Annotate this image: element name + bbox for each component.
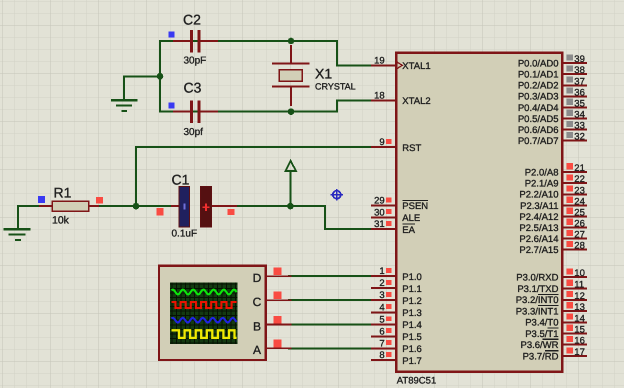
pin 39 (P0.0/AD0) right side	[518, 54, 586, 69]
svg-text:XTAL2: XTAL2	[402, 96, 430, 107]
pin 19 (XTAL1) left side	[372, 55, 430, 72]
svg-text:R1: R1	[54, 184, 72, 200]
pin 36 (P0.3/AD3) right side	[518, 87, 586, 102]
svg-text:24: 24	[574, 196, 585, 207]
scope pin D	[253, 271, 291, 285]
pin 29 (PSEN) left side	[372, 196, 428, 213]
indicator square C1 left pin (red)	[156, 208, 163, 215]
svg-text:25: 25	[574, 207, 585, 218]
svg-text:P0.1/AD1: P0.1/AD1	[518, 70, 559, 81]
power arrow (VCC)	[285, 161, 296, 171]
pin 27 (P2.6/A14) right side	[519, 230, 586, 245]
svg-text:33: 33	[574, 121, 585, 132]
pin 7 (P1.6) left side	[372, 338, 422, 355]
svg-text:P0.0/AD0: P0.0/AD0	[518, 59, 559, 70]
svg-text:P1.0: P1.0	[402, 272, 422, 283]
svg-text:P0.7/AD7: P0.7/AD7	[518, 136, 559, 147]
svg-text:15: 15	[574, 325, 585, 336]
capacitor C1	[172, 187, 236, 228]
pin 2 (P1.1) left side	[372, 278, 422, 295]
crystal X1	[272, 46, 310, 105]
resistor R1	[40, 201, 98, 211]
svg-text:P3.4/T0: P3.4/T0	[525, 318, 558, 329]
svg-text:PSEN: PSEN	[402, 201, 428, 212]
svg-text:EA: EA	[402, 225, 415, 236]
svg-text:RST: RST	[402, 143, 421, 154]
svg-text:P1.6: P1.6	[402, 344, 422, 355]
svg-text:A: A	[253, 343, 261, 357]
junction node XTAL2/C3/crystal-bottom	[288, 108, 295, 115]
indicator square C2 left pin (blue)	[168, 32, 174, 38]
pin 22 (P2.1/A9) right side	[525, 174, 586, 189]
pin 12 (P3.2/INT0) right side	[516, 291, 586, 306]
pin 13 (P3.3/INT1) right side	[516, 302, 586, 317]
wire ground branch from node at (160,76)	[124, 76, 160, 99]
wire power arrow stem	[289, 171, 291, 206]
svg-text:32: 32	[574, 132, 585, 143]
scope pin C	[253, 295, 291, 309]
svg-text:P2.0/A8: P2.0/A8	[525, 167, 559, 178]
pin 35 (P0.4/AD4) right side	[518, 98, 586, 113]
wire scope A to chip	[289, 347, 373, 349]
svg-text:P0.6/AD6: P0.6/AD6	[518, 125, 559, 136]
svg-text:P0.4/AD4: P0.4/AD4	[518, 103, 559, 114]
svg-text:B: B	[253, 319, 261, 333]
svg-text:6: 6	[379, 326, 384, 337]
svg-text:5: 5	[379, 315, 384, 326]
pin 15 (P3.5/T1) right side	[525, 325, 586, 340]
svg-text:P2.3/A11: P2.3/A11	[520, 201, 558, 212]
wire XTAL2 net: C3 right to chip pin 18	[160, 100, 373, 111]
capacitor C2	[174, 30, 217, 53]
pin 26 (P2.5/A13) right side	[519, 219, 586, 234]
svg-text:P1.1: P1.1	[402, 284, 422, 295]
svg-text:P0.2/AD2: P0.2/AD2	[518, 81, 559, 92]
svg-text:34: 34	[574, 110, 585, 121]
wire R1 right to C1 left	[97, 205, 173, 207]
pin 16 (P3.6/WR) right side	[520, 336, 586, 351]
svg-text:AT89C51: AT89C51	[397, 375, 436, 386]
wire scope D to chip	[289, 275, 373, 277]
wire vertical C2-C3 left bus at x=160	[159, 41, 161, 112]
wire scope B to chip	[289, 324, 373, 326]
pin 6 (P1.5) left side	[372, 326, 422, 343]
svg-text:P3.3/INT1: P3.3/INT1	[516, 306, 559, 317]
pin 37 (P0.2/AD2) right side	[518, 76, 586, 91]
svg-text:P2.1/A9: P2.1/A9	[525, 179, 559, 190]
pin 3 (P1.2) left side	[372, 290, 422, 307]
waveform green sine (channel D)	[172, 290, 237, 295]
pin 32 (P0.7/AD7) right side	[518, 132, 586, 147]
svg-text:P3.2/INT0: P3.2/INT0	[516, 295, 559, 306]
pin 9 (RST) left side	[372, 137, 421, 154]
svg-text:10: 10	[574, 268, 585, 279]
pin 33 (P0.6/AD6) right side	[518, 121, 586, 136]
indicator square scope D wire (red)	[274, 268, 282, 276]
pin 30 (ALE) left side	[372, 207, 420, 224]
pin 10 (P3.0/RXD) right side	[516, 268, 586, 283]
indicator square scope C wire (red)	[274, 292, 282, 300]
indicator square C3 left pin (blue)	[168, 103, 174, 109]
svg-text:30pF: 30pF	[184, 56, 207, 67]
svg-text:13: 13	[574, 302, 585, 313]
svg-text:P3.0/RXD: P3.0/RXD	[516, 273, 558, 284]
indicator square C1 right pin (red)	[227, 209, 234, 215]
svg-text:0.1uF: 0.1uF	[172, 228, 198, 239]
svg-text:23: 23	[574, 185, 585, 196]
svg-text:36: 36	[574, 87, 585, 98]
svg-text:12: 12	[574, 291, 585, 302]
svg-text:X1: X1	[315, 66, 332, 82]
origin marker (blue crosshair)	[331, 189, 344, 200]
svg-text:29: 29	[374, 196, 385, 207]
pin 5 (P1.4) left side	[372, 315, 422, 332]
waveform blue sine (channel B)	[172, 318, 237, 323]
scope pin A	[253, 343, 291, 357]
indicator square scope A wire (red)	[274, 340, 282, 348]
svg-text:P2.6/A14: P2.6/A14	[519, 234, 558, 245]
svg-text:P1.3: P1.3	[402, 308, 422, 319]
svg-text:26: 26	[574, 219, 585, 230]
pin 18 (XTAL2) left side	[372, 90, 430, 107]
svg-text:P0.5/AD5: P0.5/AD5	[518, 114, 559, 125]
svg-text:35: 35	[574, 98, 585, 109]
wire ground to R1 left	[18, 205, 41, 207]
svg-text:18: 18	[374, 90, 385, 101]
ground (upper, near C2/C3)	[112, 76, 136, 111]
svg-text:7: 7	[379, 338, 384, 349]
wire ground stem (left ground)	[17, 206, 19, 228]
wire C1 right to EA pin 31	[235, 206, 373, 229]
wire XTAL1 net: C2 right to chip pin 19	[160, 41, 373, 65]
junction node VCC/C1/EA	[287, 203, 294, 210]
ground (lower left, near R1)	[5, 229, 30, 240]
pin 38 (P0.1/AD1) right side	[518, 65, 586, 80]
svg-text:P1.5: P1.5	[402, 332, 422, 343]
waveform yellow square (channel A)	[172, 330, 237, 338]
svg-text:8: 8	[379, 350, 384, 361]
svg-text:30: 30	[374, 207, 385, 218]
svg-text:P1.4: P1.4	[402, 320, 422, 331]
pin 31 (EA) left side	[372, 219, 415, 236]
svg-text:P0.3/AD3: P0.3/AD3	[518, 92, 559, 103]
svg-text:P2.5/A13: P2.5/A13	[519, 223, 558, 234]
svg-text:2: 2	[379, 278, 384, 289]
scope pin B	[253, 319, 291, 333]
svg-text:21: 21	[574, 163, 585, 174]
IC U1 AT89C51 body	[396, 53, 562, 372]
svg-text:C2: C2	[183, 12, 201, 28]
pin 14 (P3.4/T0) right side	[525, 313, 586, 328]
wire RST net from node (136,206) up and right to pin 9	[136, 147, 373, 206]
svg-text:1: 1	[379, 266, 384, 277]
capacitor C3	[174, 100, 217, 123]
oscilloscope display body	[159, 266, 266, 360]
svg-text:P3.6/WR: P3.6/WR	[520, 340, 558, 351]
svg-text:37: 37	[574, 76, 585, 87]
svg-text:P2.2/A10: P2.2/A10	[519, 190, 558, 201]
pin 34 (P0.5/AD5) right side	[518, 110, 586, 125]
pin 23 (P2.2/A10) right side	[519, 185, 586, 200]
svg-text:P3.7/RD: P3.7/RD	[523, 352, 559, 363]
oscilloscope screen	[170, 283, 237, 344]
svg-text:P2.7/A15: P2.7/A15	[519, 245, 558, 256]
svg-text:3: 3	[379, 290, 384, 301]
svg-text:P1.2: P1.2	[402, 296, 422, 307]
svg-text:22: 22	[574, 174, 585, 185]
svg-text:39: 39	[574, 54, 585, 65]
waveform red square (channel C)	[172, 302, 237, 308]
wire scope C to chip	[289, 299, 373, 301]
junction node XTAL1/C2/crystal-top	[288, 38, 295, 45]
svg-text:C1: C1	[172, 171, 190, 187]
pin 11 (P3.1/TXD) right side	[517, 279, 586, 294]
svg-text:P3.1/TXD: P3.1/TXD	[517, 284, 558, 295]
pin 28 (P2.7/A15) right side	[519, 241, 586, 256]
svg-text:16: 16	[574, 336, 585, 347]
svg-text:14: 14	[574, 313, 585, 324]
svg-text:19: 19	[374, 55, 385, 66]
svg-text:38: 38	[574, 65, 585, 76]
svg-text:30pf: 30pf	[184, 127, 204, 138]
svg-text:17: 17	[574, 347, 585, 358]
indicator square scope B wire (red)	[274, 316, 282, 324]
junction node ground tap	[157, 73, 164, 80]
svg-text:C: C	[253, 295, 262, 309]
pin 21 (P2.0/A8) right side	[525, 163, 586, 178]
pin 24 (P2.3/A11) right side	[520, 196, 586, 211]
svg-text:P2.4/A12: P2.4/A12	[519, 212, 558, 223]
svg-text:9: 9	[379, 137, 384, 148]
pin 4 (P1.3) left side	[372, 302, 422, 319]
svg-text:P1.7: P1.7	[402, 356, 422, 367]
indicator square R1 right pin (red)	[96, 197, 103, 203]
svg-text:27: 27	[574, 230, 585, 241]
indicator square R1 left pin (blue)	[38, 196, 45, 203]
svg-text:D: D	[253, 271, 262, 285]
svg-text:ALE: ALE	[402, 213, 420, 224]
pin 17 (P3.7/RD) right side	[523, 347, 586, 362]
svg-text:CRYSTAL: CRYSTAL	[315, 82, 356, 92]
junction node RST tap	[133, 203, 140, 210]
pin 1 (P1.0) left side	[372, 266, 422, 283]
pin 25 (P2.4/A12) right side	[519, 207, 586, 222]
pin 8 (P1.7) left side	[372, 350, 422, 367]
svg-text:31: 31	[374, 219, 385, 230]
svg-text:10k: 10k	[52, 215, 70, 227]
svg-text:P3.5/T1: P3.5/T1	[525, 329, 558, 340]
svg-text:C3: C3	[184, 79, 202, 95]
svg-text:28: 28	[574, 241, 585, 252]
svg-text:4: 4	[379, 302, 384, 313]
svg-text:XTAL1: XTAL1	[402, 61, 430, 72]
svg-text:11: 11	[574, 279, 584, 290]
